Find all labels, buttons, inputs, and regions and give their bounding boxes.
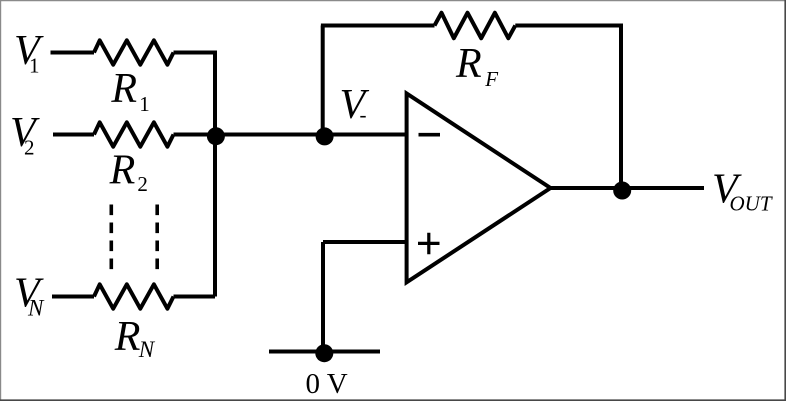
wire VN to RN xyxy=(52,295,94,299)
svg-text:R: R xyxy=(109,147,136,193)
node V2 label xyxy=(10,110,40,160)
wire V1 to R1 xyxy=(51,51,95,55)
node V- label xyxy=(340,82,370,128)
junction ground node xyxy=(315,344,333,362)
svg-text:-: - xyxy=(360,103,367,127)
svg-text:R: R xyxy=(114,314,141,360)
junction bus node xyxy=(207,127,225,145)
svg-text:2: 2 xyxy=(137,172,148,196)
svg-text:1: 1 xyxy=(29,54,40,78)
resistor R1 value label xyxy=(110,66,149,116)
svg-text:N: N xyxy=(27,295,45,320)
wire V2 to R2 xyxy=(53,133,94,137)
resistor R2 xyxy=(94,122,174,146)
dashed ellipsis line right xyxy=(155,205,159,270)
resistor RF xyxy=(435,13,516,39)
svg-text:0 V: 0 V xyxy=(306,368,348,400)
resistor R2 value label xyxy=(109,147,148,196)
node V1 label xyxy=(14,28,44,78)
wire feedback down to output node xyxy=(619,24,623,189)
wire R1 to bus xyxy=(174,51,216,55)
wire non-inverting input down to ground xyxy=(321,242,325,352)
junction output node xyxy=(613,182,631,200)
resistor RF value label xyxy=(455,41,498,91)
ground 0V rail xyxy=(269,350,380,354)
junction V- node xyxy=(316,127,334,145)
svg-text:1: 1 xyxy=(139,92,150,116)
op-amp U1 xyxy=(407,94,551,283)
wire R2 to bus xyxy=(174,133,216,137)
svg-text:R: R xyxy=(110,66,137,112)
ground 0V label xyxy=(306,368,348,400)
op-amp plus sign xyxy=(418,233,440,255)
resistor RN xyxy=(94,284,174,308)
svg-text:F: F xyxy=(484,67,498,91)
op-amp minus sign xyxy=(419,133,441,137)
svg-text:2: 2 xyxy=(24,136,35,160)
wire ground to op-amp non-inverting input xyxy=(323,240,407,244)
resistor R1 xyxy=(94,40,174,64)
svg-text:N: N xyxy=(138,337,156,362)
wire RN to bus xyxy=(174,295,216,299)
wire feedback top right segment xyxy=(515,24,623,28)
node VOUT label xyxy=(712,167,773,216)
resistor RN value label xyxy=(114,314,156,362)
dashed ellipsis line left xyxy=(110,205,114,270)
wire V- node up to feedback xyxy=(321,26,325,135)
wire bus to op-amp inverting input xyxy=(215,133,407,137)
wire op-amp output xyxy=(551,186,705,190)
wire summing bus vertical xyxy=(213,51,217,297)
svg-text:OUT: OUT xyxy=(730,192,773,216)
node VN label xyxy=(14,271,45,321)
wire feedback top left segment xyxy=(321,24,435,28)
svg-text:R: R xyxy=(455,41,482,87)
